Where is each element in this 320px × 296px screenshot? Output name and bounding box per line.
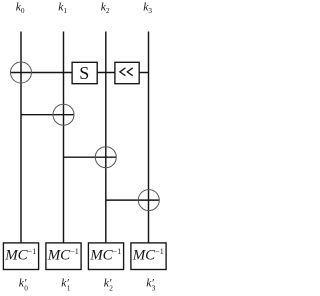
svg-text:S: S bbox=[79, 63, 89, 83]
